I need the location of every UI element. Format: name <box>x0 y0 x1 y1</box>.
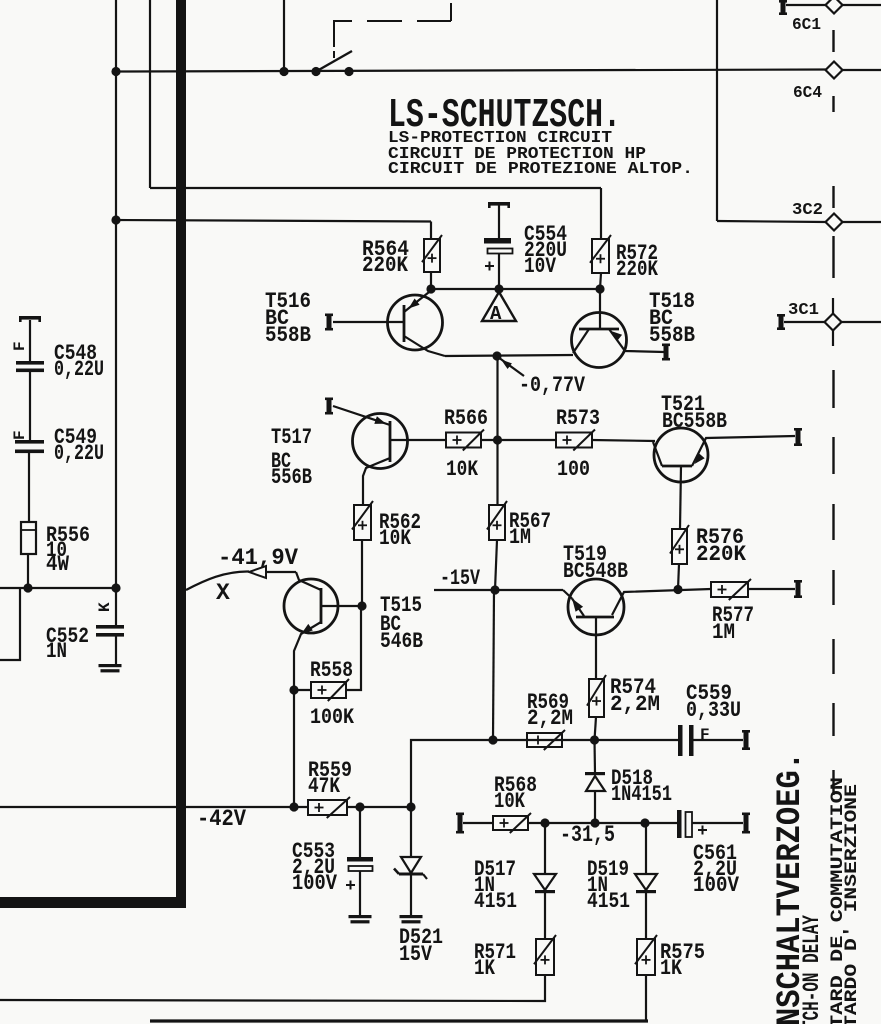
wire R573 to T521 <box>592 440 655 441</box>
capacitor C553 plates <box>347 857 373 862</box>
wire R571 bottom to bottom rail <box>0 975 545 1001</box>
transistor T519 (BC548B) <box>563 579 711 679</box>
switch S contact dots <box>311 67 320 76</box>
wire 3C2 to edge <box>842 221 881 223</box>
svg-text:10K: 10K <box>379 526 412 551</box>
node junction (645,823) <box>640 818 649 827</box>
node junction (600,289) <box>595 284 604 293</box>
svg-text:10K: 10K <box>446 457 479 482</box>
wire R564 bottom <box>430 272 432 289</box>
wire R568 left <box>463 822 493 824</box>
probe X arrow <box>186 571 249 590</box>
diode D518 <box>585 772 605 775</box>
terminal pin C559 <box>744 730 749 750</box>
wire 3C1 <box>784 321 825 323</box>
svg-text:R558: R558 <box>310 658 353 683</box>
diode D521 zener 15V <box>401 857 421 873</box>
wire y=221 to 3C2 <box>717 221 826 222</box>
node junction (294,690) <box>289 685 298 694</box>
node junction (284,71) <box>279 67 288 76</box>
thick border bar (vertical) <box>176 0 186 905</box>
wire D517 top <box>544 823 546 874</box>
wire C548 top <box>29 320 31 361</box>
capacitor C554 plates <box>484 238 511 244</box>
node junction (362,606) <box>357 601 366 610</box>
wire -15V node down <box>493 590 494 740</box>
point A triangle symbol <box>482 292 516 321</box>
ground C553 <box>349 915 372 918</box>
switch S blade <box>316 51 352 72</box>
resistor R571 <box>536 939 554 975</box>
bottom page edge line <box>150 1019 648 1022</box>
wire D518 top <box>593 740 596 773</box>
wire -42V rail <box>0 806 308 808</box>
diode D519 (1N4151) <box>635 874 657 890</box>
node junction (497,440) <box>493 435 502 444</box>
switch linkage dashed line <box>333 21 335 47</box>
resistor R569 <box>527 733 562 747</box>
svg-text:220K: 220K <box>362 253 409 278</box>
annotation arrow -0,77V <box>500 359 524 377</box>
dashed page-boundary line (vertical right) <box>832 30 834 52</box>
svg-text:-15V: -15V <box>440 566 481 591</box>
svg-text:1K: 1K <box>660 956 683 981</box>
svg-text:10K: 10K <box>494 789 526 814</box>
svg-text:4151: 4151 <box>474 889 517 914</box>
resistor R568 <box>493 816 528 830</box>
resistor R577 <box>711 582 748 597</box>
connector diamond 3C2 <box>826 214 843 231</box>
svg-text:3C2: 3C2 <box>792 201 823 220</box>
resistor R558 <box>311 682 346 698</box>
terminal pin R577 <box>796 580 801 598</box>
node junction (545,823) <box>540 818 549 827</box>
svg-text:-31,5: -31,5 <box>560 822 615 848</box>
ground D521 <box>400 915 423 918</box>
terminal pin 6C1 <box>781 0 786 15</box>
svg-text:1M: 1M <box>509 525 531 550</box>
svg-text:0,22U: 0,22U <box>54 357 104 382</box>
node junction (595,823) <box>590 818 599 827</box>
svg-text:558B: 558B <box>265 323 311 348</box>
wire C561 right <box>692 822 743 824</box>
node junction (499,289) <box>494 284 503 293</box>
wire R576 bottom <box>678 564 679 590</box>
wire -15V stub <box>434 589 563 591</box>
svg-text:15V: 15V <box>399 942 433 967</box>
wire D519 bottom <box>645 893 647 939</box>
node junction (411,807) <box>406 802 415 811</box>
wire C548-C549 <box>29 372 31 440</box>
svg-text:1N4151: 1N4151 <box>611 782 672 807</box>
svg-text:4151: 4151 <box>587 889 630 914</box>
wire vertical x=284 from top <box>283 0 285 72</box>
node junction (497,356) <box>492 351 501 360</box>
wire -42V to R569 rail <box>411 740 493 807</box>
wire C554 top <box>498 205 500 238</box>
diode D517 (1N4151) <box>534 874 556 890</box>
node junction (294,807) <box>289 802 298 811</box>
svg-text:1N: 1N <box>46 639 67 664</box>
resistor R575 <box>637 939 655 975</box>
wire C552 bottom <box>115 636 117 664</box>
svg-text:100: 100 <box>557 457 590 482</box>
svg-text:-41,9V: -41,9V <box>218 545 298 571</box>
wire C553 bottom <box>359 871 361 915</box>
wire horizontal y=188 to R572 <box>150 187 601 189</box>
terminal C548 top <box>19 316 41 320</box>
resistor R564 <box>424 239 440 272</box>
terminal pin R568 left <box>458 813 463 834</box>
terminal pin T518 emitter <box>664 344 669 361</box>
terminal C554 top <box>488 202 510 206</box>
wire node down to R566/R573 rail <box>496 356 498 440</box>
wire R562 bottom <box>361 540 363 606</box>
capacitor C552 plates <box>96 625 124 629</box>
wire R572 top <box>600 188 602 239</box>
wire rail y=740 <box>493 739 679 741</box>
wire vertical x=116 from top to left rail <box>115 0 117 589</box>
svg-text:3C1: 3C1 <box>788 301 819 320</box>
capacitor C549 plates <box>15 440 44 444</box>
transistor T515 (BC546B) <box>284 572 362 690</box>
wire -31,5 rail <box>528 822 678 824</box>
svg-text:CIRCUIT DE PROTEZIONE ALTOP.: CIRCUIT DE PROTEZIONE ALTOP. <box>388 160 693 179</box>
wire vertical x=150 from top <box>149 0 151 188</box>
terminal pin T516 base <box>327 314 332 331</box>
svg-text:2,2M: 2,2M <box>527 706 573 731</box>
node junction (116,588) <box>111 583 120 592</box>
wire R566-R573 <box>481 439 556 441</box>
svg-text:-0,77V: -0,77V <box>519 373 586 398</box>
svg-text:0,22U: 0,22U <box>54 441 104 466</box>
node junction (678,589) <box>673 585 682 594</box>
transistor T517 (BC556B) <box>333 406 446 505</box>
svg-text:6C1: 6C1 <box>792 16 821 35</box>
terminal pin T517 emitter <box>327 398 332 415</box>
resistor R573 <box>556 433 592 448</box>
resistor R566 <box>446 433 481 448</box>
node junction (116,220) <box>111 215 120 224</box>
wire left rail y=588 <box>0 587 116 589</box>
resistor R576 <box>672 529 687 564</box>
wire R567 top <box>496 440 498 505</box>
svg-text:546B: 546B <box>380 629 423 654</box>
svg-text:R573: R573 <box>556 406 600 431</box>
svg-text:10V: 10V <box>524 254 557 279</box>
wire C559 right <box>694 739 744 741</box>
svg-text:556B: 556B <box>271 465 312 490</box>
svg-text:F: F <box>11 341 29 351</box>
svg-text:K: K <box>96 602 114 612</box>
svg-text:F: F <box>11 430 29 440</box>
wire R564 top <box>430 222 432 240</box>
transistor T521 (BC558B) <box>653 428 795 482</box>
capacitor C561 plates <box>677 810 682 838</box>
node junction (495,590) <box>490 585 499 594</box>
svg-text:2,2M: 2,2M <box>610 692 660 717</box>
svg-text:TCH-ON DELAY: TCH-ON DELAY <box>799 915 825 1024</box>
resistor R567 <box>489 505 505 540</box>
terminal pin 3C1 <box>779 314 784 330</box>
wire R575 bottom <box>645 975 647 1020</box>
ground C552 <box>99 664 122 667</box>
connector diamond 6C1 <box>826 0 843 14</box>
wire base rail y=289 <box>431 288 600 290</box>
wire rail y=356 (-0,77V net) <box>445 355 573 356</box>
capacitor C559 plates <box>678 725 683 756</box>
svg-text:47K: 47K <box>308 774 341 799</box>
wire left step <box>0 588 20 660</box>
wire C554 bottom <box>498 254 500 290</box>
svg-text:100V: 100V <box>693 873 740 898</box>
wire C553 top <box>359 807 361 857</box>
svg-text:1M: 1M <box>712 620 735 645</box>
terminal pin T521 emitter <box>796 428 801 446</box>
svg-text:-42V: -42V <box>197 806 246 832</box>
wire solid segment of dashed line at 3C1 <box>832 298 834 346</box>
connector diamond 3C1 <box>825 314 842 331</box>
wire D519 top <box>645 823 647 874</box>
wire R558 left <box>294 689 311 691</box>
wire R577 right <box>748 588 795 590</box>
label C553 plus <box>346 884 355 886</box>
node junction (360,807) <box>355 802 364 811</box>
wire D517 bottom <box>544 893 546 939</box>
resistor R574 <box>589 679 604 717</box>
svg-text:BC548B: BC548B <box>563 559 628 584</box>
wire 6C4 to edge <box>842 69 881 71</box>
svg-text:0,33U: 0,33U <box>686 698 741 723</box>
node junction (493,740) <box>488 735 497 744</box>
svg-text:4W: 4W <box>46 552 70 577</box>
wire y=220 rail <box>116 220 431 222</box>
wire C549-R556 <box>28 453 30 522</box>
wire R559 right <box>347 806 411 808</box>
capacitor C548 plates <box>16 361 44 365</box>
resistor R559 <box>308 800 347 815</box>
svg-text:558B: 558B <box>649 323 695 348</box>
thick border bar (bottom horizontal) <box>0 897 186 908</box>
label C554 plus <box>485 265 494 267</box>
svg-text:1K: 1K <box>474 956 496 981</box>
wire to 6C1 <box>786 4 826 6</box>
svg-text:R566: R566 <box>444 406 488 431</box>
label C561 plus <box>698 829 707 831</box>
resistor R572 <box>592 239 609 273</box>
wire D518 bottom <box>594 791 596 823</box>
svg-text:BC558B: BC558B <box>662 409 727 434</box>
svg-text:220K: 220K <box>616 257 659 282</box>
wire emitter node down to R559 <box>293 690 295 807</box>
svg-text:220K: 220K <box>696 542 747 567</box>
wire D521 bottom <box>410 875 412 915</box>
node junction (116,71) <box>111 67 120 76</box>
wire R572 bottom <box>600 273 601 289</box>
terminal pin C561 <box>744 813 749 834</box>
wire R576 top <box>680 466 681 529</box>
wire top rail - y=71 from x=116 to 6C4 <box>116 70 826 72</box>
wire vertical x=717 (connector box) <box>716 0 718 221</box>
svg-text:X: X <box>216 580 230 606</box>
wire R558 right up to base node <box>346 606 361 690</box>
wire R556 bottom <box>27 554 29 588</box>
wire D521 top <box>410 807 412 856</box>
svg-text:6C4: 6C4 <box>793 84 822 103</box>
svg-text:A: A <box>490 303 502 325</box>
svg-text:F: F <box>700 726 710 744</box>
node junction (28,588) <box>23 583 32 592</box>
svg-text:TARDO D' INSERZIONE: TARDO D' INSERZIONE <box>842 784 862 1024</box>
node junction (431,289) <box>426 284 435 293</box>
svg-text:T517: T517 <box>271 425 312 450</box>
node junction (594,740) <box>590 735 599 744</box>
svg-text:100K: 100K <box>310 705 355 730</box>
resistor R556 <box>21 522 36 554</box>
wire R574 bottom <box>595 717 597 740</box>
svg-text:100V: 100V <box>292 871 338 896</box>
connector diamond 6C4 <box>826 62 843 79</box>
resistor R562 <box>354 505 371 540</box>
transistor T516 (BC558B) <box>333 291 445 357</box>
wire R567 bottom <box>495 540 497 590</box>
wire C552 top <box>115 588 117 625</box>
transistor T518 (BC558B) <box>572 289 665 368</box>
